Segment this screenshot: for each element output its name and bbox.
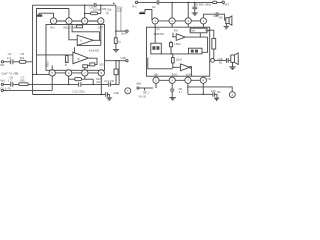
svg-text:(2): (2) [106, 11, 109, 15]
svg-text:RA: RA [174, 28, 178, 32]
svg-text:A: A [80, 39, 82, 43]
svg-text:DE 1: DE 1 [143, 91, 149, 95]
svg-text:AM6403: AM6403 [153, 32, 164, 36]
svg-text:C0E: C0E [114, 91, 119, 95]
svg-text:100: 100 [99, 63, 104, 67]
svg-text:CW RW 100Ω: CW RW 100Ω [194, 2, 212, 6]
svg-text:120: 120 [117, 9, 122, 13]
svg-text:7k4: 7k4 [19, 56, 24, 60]
svg-text:2.2: 2.2 [7, 56, 12, 60]
svg-text:VoB: VoB [120, 56, 125, 60]
svg-text:100: 100 [218, 15, 223, 19]
svg-text:D8: D8 [179, 87, 183, 91]
svg-text:C18: C18 [218, 57, 223, 61]
svg-text:VB: VB [207, 77, 211, 81]
svg-text:1.5kΩ: 1.5kΩ [174, 42, 181, 46]
svg-text:RM: RM [72, 25, 77, 29]
svg-text:2mA: 2mA [121, 32, 127, 36]
svg-text:C10: C10 [96, 80, 101, 84]
svg-text:C4: C4 [152, 5, 156, 9]
svg-text:C0a: C0a [107, 8, 112, 12]
svg-text:C16: C16 [211, 89, 216, 93]
svg-text:VaD: VaD [136, 81, 141, 85]
svg-text:Rm: Rm [132, 5, 137, 9]
svg-text:100µF: 100µF [93, 8, 102, 12]
svg-text:3-N 20: 3-N 20 [138, 95, 146, 99]
svg-text:NB: NB [154, 72, 158, 76]
svg-text:160: 160 [20, 78, 25, 82]
svg-text:Rm: Rm [50, 26, 55, 30]
svg-text:B: B [65, 64, 67, 67]
svg-text:RB(+): RB(+) [47, 60, 50, 67]
svg-text:SuR: SuR [186, 72, 191, 76]
svg-text:C13 100: C13 100 [104, 79, 114, 83]
svg-text:R18: R18 [96, 77, 101, 81]
svg-text:ESG: ESG [172, 72, 177, 76]
svg-text:Va1: Va1 [0, 78, 5, 82]
svg-text:C12 220µ: C12 220µ [72, 89, 85, 93]
svg-text:1.2: 1.2 [8, 78, 13, 82]
svg-text:9Ω: 9Ω [219, 60, 222, 64]
svg-text:Vo: Vo [156, 27, 160, 31]
svg-text:Mic: Mic [0, 63, 5, 67]
svg-text:(2) 1~7k: (2) 1~7k [0, 87, 11, 91]
svg-text:4.7: 4.7 [179, 90, 183, 94]
svg-text:9D: 9D [217, 90, 220, 94]
svg-text:Ram: Ram [189, 28, 196, 32]
svg-text:B: B [78, 57, 80, 61]
svg-text:YWT: YWT [223, 2, 230, 6]
svg-text:NaP: NaP [205, 28, 211, 32]
svg-text:IN1(-): IN1(-) [63, 26, 71, 30]
svg-text:1u: 1u [118, 40, 122, 44]
svg-text:15kΩ: 15kΩ [176, 58, 182, 62]
svg-text:OUT: OUT [97, 26, 104, 30]
svg-text:KA2402: KA2402 [89, 48, 100, 52]
